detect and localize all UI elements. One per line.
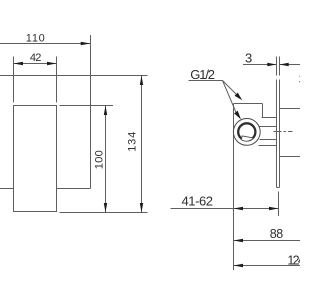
port flap notch inside cartridge	[241, 136, 253, 141]
G1/2 leader line to top port	[223, 81, 238, 96]
cartridge housing outer circle	[233, 118, 260, 145]
handle side view: top edge	[280, 108, 301, 110]
svg-text:3: 3	[245, 51, 252, 66]
wall plate side view: back face line lower segment	[279, 80, 281, 188]
extension line handle top to 100 dimension	[60, 105, 114, 107]
dimension 3: right lead line	[280, 64, 301, 66]
arrow 42 right	[47, 62, 57, 65]
extension line 42 right	[56, 57, 58, 103]
svg-text:110: 110	[26, 32, 45, 44]
arrow 3 pointing left	[280, 63, 289, 66]
valve body: top edge	[234, 103, 263, 105]
svg-text:134: 134	[127, 132, 139, 152]
dimension line 41-62	[171, 208, 279, 210]
handle front view: lever rectangle	[14, 106, 57, 212]
wall plate side view: front face line lower segment	[276, 80, 278, 188]
cartridge inner ring (thick)	[238, 123, 255, 140]
arrow 3 pointing right	[267, 63, 276, 66]
dimension line 110	[0, 43, 91, 45]
wall plate side view: bottom cap	[277, 187, 280, 189]
svg-text:42: 42	[30, 52, 42, 64]
valve body: left edge and extension line down to dimensions	[233, 104, 235, 271]
svg-text:88: 88	[270, 227, 284, 241]
cartridge stem bottom line	[260, 139, 277, 141]
plate front view: bottom edge left segment	[0, 188, 14, 190]
arrow 134 down	[140, 203, 143, 213]
G1/2 leader line to front port	[223, 81, 237, 113]
arrow 100 down	[104, 203, 107, 213]
dimension line 88	[234, 240, 301, 242]
wall plate side view: front face line upper segment	[276, 57, 278, 76]
G1/2 leader arrow to top port	[235, 93, 243, 101]
arrow 41-62 left	[234, 207, 244, 210]
svg-text:3: 3	[299, 73, 300, 87]
arrow 134 up	[140, 76, 143, 86]
cartridge sleeve bottom tangent line	[259, 145, 277, 147]
extension line 42 left	[13, 57, 15, 103]
dimension line 124	[234, 265, 301, 267]
handle side view: bottom edge	[280, 156, 301, 158]
arrow 110 right	[81, 42, 91, 46]
extension line handle bottom to 134 dimension	[60, 212, 148, 214]
plate front view: bottom edge right segment	[57, 188, 91, 190]
valve body: right edge	[262, 104, 264, 118]
plate front view: right edge with extension line up to 110 dimension	[90, 35, 92, 189]
svg-text:100: 100	[94, 150, 106, 169]
cartridge sleeve top tangent line	[262, 117, 277, 119]
arrow 41-62 right	[269, 207, 279, 210]
svg-text:G1/2: G1/2	[190, 67, 215, 82]
centerline through cartridge axis	[274, 131, 293, 133]
G1/2 leader arrow to front port	[234, 111, 241, 120]
arrow 42 left	[14, 62, 24, 65]
wall plate side view: back face line upper segment	[279, 57, 281, 76]
dimension 3: left lead line	[243, 64, 277, 66]
G1/2 label underline	[189, 80, 223, 82]
dimension line 100 vertical	[105, 106, 107, 213]
dimension line 42	[14, 63, 57, 65]
svg-text:124: 124	[287, 253, 300, 267]
svg-text:41-62: 41-62	[182, 194, 214, 209]
arrow 124 left	[234, 264, 244, 267]
arrow 88 left	[234, 239, 244, 242]
cartridge stem top line	[260, 126, 277, 128]
plate front view: top edge with extension line to 134 dimension	[0, 75, 148, 77]
dimension line 134 vertical	[141, 76, 143, 213]
extension line below plate side view	[278, 192, 280, 217]
arrow 100 up	[104, 106, 107, 116]
